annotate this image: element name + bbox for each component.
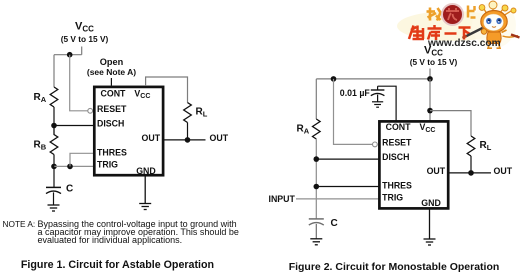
svg-text:TRIG: TRIG (382, 193, 403, 203)
pin labels U1 (97, 89, 161, 176)
node DISCH junction Fig1 (51, 123, 57, 129)
svg-text:DISCH: DISCH (97, 118, 124, 128)
note A text (3, 219, 239, 245)
wire DISCH Fig1 (54, 125, 94, 127)
resistor RL (Fig2) (467, 136, 475, 156)
svg-text:OUT: OUT (142, 133, 161, 143)
svg-text:CONT: CONT (101, 89, 127, 99)
node VCC (Fig2 supply label) (410, 45, 458, 67)
pen (466, 28, 483, 37)
wire THRES tie Fig1 (70, 153, 94, 166)
node junction Fig1 VCC rail (67, 52, 73, 58)
svg-text:INPUT: INPUT (269, 194, 296, 204)
wire OUT Fig2 (449, 172, 491, 174)
body (487, 32, 501, 44)
wire TRIG Fig1 (54, 165, 94, 167)
wire DISCH Fig2 (316, 158, 379, 160)
ground (Fig1 IC) (139, 204, 151, 210)
head hood (481, 11, 507, 33)
wire RB bottom lead Fig1 (53, 155, 55, 167)
node junction RL branch Fig2 (427, 108, 433, 114)
svg-text:VCC: VCC (75, 21, 94, 34)
node VCC (Fig1 supply label) (61, 21, 109, 44)
wire RA top lead Fig2 (315, 79, 317, 119)
wire GND lead Fig2 (429, 209, 431, 239)
op-amp U2 timer box Fig2 (379, 121, 448, 208)
svg-text:(5 V to 15 V): (5 V to 15 V) (61, 34, 109, 44)
wire THRES Fig2 (316, 186, 379, 188)
svg-text:VCC: VCC (420, 122, 436, 134)
resistor RA (Fig1) (50, 87, 58, 107)
watermark mascot (463, 1, 520, 48)
svg-text:RL: RL (480, 140, 492, 152)
wire RA top lead Fig1 (53, 55, 55, 87)
wire RESET feed Fig2 (334, 79, 373, 144)
node OUT junction Fig2 (468, 170, 474, 176)
svg-text:RESET: RESET (382, 137, 412, 147)
watermark red circle chip (芯) (442, 4, 463, 25)
svg-text:OUT: OUT (494, 166, 513, 176)
svg-text:THRES: THRES (382, 181, 412, 191)
tail (503, 36, 519, 38)
node junction rail-RESET Fig2 (331, 76, 337, 82)
svg-text:Figure 1. Circuit for Astable: Figure 1. Circuit for Astable Operation (21, 259, 214, 271)
capacitor 0.01uF (Fig2) (371, 86, 385, 102)
svg-text:(5 V to 15 V): (5 V to 15 V) (410, 57, 458, 67)
pin RESET circle Fig1 (88, 108, 93, 113)
wire RA bottom vertical Fig2 (315, 139, 317, 219)
capacitor C (Fig1) (46, 187, 61, 205)
svg-text:VCC: VCC (134, 89, 150, 101)
svg-text:RA: RA (297, 124, 310, 136)
svg-text:RA: RA (34, 92, 47, 104)
svg-text:C: C (66, 184, 73, 195)
wire RL bottom lead Fig2 (470, 156, 472, 173)
pin RESET circle Fig2 (373, 142, 378, 147)
wire RA bottom lead Fig1 (53, 107, 55, 126)
ground (Fig2 capacitor C) (310, 239, 322, 245)
watermark glow (397, 11, 507, 41)
svg-text:TRIG: TRIG (97, 159, 118, 169)
svg-text:NOTE A:: NOTE A: (3, 219, 36, 229)
svg-text:RL: RL (196, 107, 208, 119)
svg-text:Open: Open (100, 57, 124, 67)
wire VCC rail Fig1 (54, 54, 82, 56)
svg-text:RESET: RESET (97, 104, 127, 114)
wire VCC drop Fig1 (81, 47, 83, 55)
node DISCH junction Fig2 (314, 156, 320, 162)
svg-text:evaluated for individual appli: evaluated for individual applications. (38, 235, 183, 245)
svg-text:www.dzsc.com: www.dzsc.com (427, 38, 501, 49)
wire VCC pin vertical Fig2 (429, 79, 431, 121)
svg-text:(see Note A): (see Note A) (87, 67, 136, 77)
wire VCC rail Fig2 (316, 78, 430, 80)
node OUT junction Fig1 (185, 137, 191, 143)
op-amp U1 timer box Fig1 (94, 87, 163, 175)
svg-text:Figure 2. Circuit for Monostab: Figure 2. Circuit for Monostable Operati… (289, 261, 500, 273)
watermark text weikuyixia (维库一下) (409, 25, 471, 40)
svg-text:GND: GND (421, 198, 441, 208)
wire CONT feed Fig2 (378, 86, 397, 121)
svg-text:CONT: CONT (386, 122, 412, 132)
wire TRIG INPUT Fig2 (296, 198, 379, 200)
ground (Fig2 IC) (424, 239, 436, 245)
wire RESET feed Fig1 (70, 55, 88, 111)
ground (Fig1 capacitor) (48, 205, 60, 211)
node junction rail-VCCpin Fig2 (427, 76, 433, 82)
svg-text:0.01 µF: 0.01 µF (340, 88, 371, 98)
eyes (486, 18, 491, 24)
svg-text:THRES: THRES (97, 147, 127, 157)
wire VCC pin to RL Fig1 (146, 77, 188, 103)
ground (Fig2 0.01uF cap) (372, 102, 383, 107)
svg-text:OUT: OUT (427, 166, 446, 176)
resistor RL (Fig1) (184, 103, 192, 123)
watermark char pian (片) (468, 6, 476, 18)
node TRIG junction Fig1 (51, 164, 57, 170)
wire capacitor C top lead Fig1 (53, 166, 55, 187)
svg-text:C: C (331, 218, 338, 229)
node THRES junction Fig2 (314, 184, 320, 190)
resistor RA (Fig2) (313, 119, 321, 139)
wire RL bottom lead Fig1 (187, 123, 189, 140)
wire CONT stub Fig1 (110, 78, 112, 86)
right arm (502, 30, 507, 33)
watermark char zhao (找) (427, 8, 441, 21)
pin labels U2 (382, 122, 446, 208)
wire GND lead Fig1 (144, 175, 146, 203)
svg-text:GND: GND (136, 166, 156, 176)
svg-text:DISCH: DISCH (382, 152, 409, 162)
node Open label (Fig1 CONT) (87, 57, 136, 77)
wire OUT Fig1 (164, 139, 206, 141)
svg-text:OUT: OUT (210, 133, 229, 143)
svg-text:RB: RB (34, 140, 47, 152)
resistor RB (Fig1) (50, 126, 58, 155)
wire RL branch Fig2 (430, 111, 471, 136)
capacitor C (Fig2) (309, 219, 324, 239)
wire VCC drop Fig2 (429, 69, 431, 79)
node THRES-TRIG tie Fig1 (67, 164, 73, 170)
